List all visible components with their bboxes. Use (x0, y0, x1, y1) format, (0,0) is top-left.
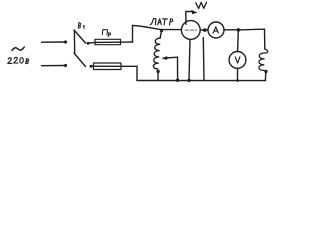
wire bottom rail (137, 80, 266, 82)
label V (235, 57, 240, 63)
wire node-A junction down to rail (202, 38, 205, 81)
wattmeter arrowhead (191, 10, 197, 15)
wire wattmeter bottom to rail (189, 39, 190, 80)
node between W and A (203, 28, 207, 32)
label Pr top fuse (102, 30, 110, 37)
wire through bottom fuse (91, 65, 137, 67)
node switch top contact (87, 42, 90, 45)
autotransformer LATR winding (153, 38, 160, 69)
voltmeter V circle (229, 52, 246, 69)
wire tap stub to winding (160, 31, 161, 38)
wire voltmeter branch bottom (237, 68, 239, 80)
label A (213, 27, 218, 33)
wire wattmeter to node (200, 29, 207, 31)
wire tap to top right corner (238, 28, 264, 31)
load inductor coil (259, 49, 268, 73)
switch B1 top blade (74, 30, 86, 43)
node wiper on rail (176, 79, 179, 82)
node voltmeter on rail (236, 79, 239, 82)
wattmeter dial dash (185, 29, 197, 31)
wire wiper to rail (177, 57, 179, 80)
node LATR top tap (160, 29, 163, 32)
LATR wiper arrowhead (161, 56, 167, 60)
fuse Pr top body (95, 39, 121, 44)
wire load bottom to rail (264, 71, 266, 80)
node V tap (237, 28, 241, 32)
wire top run to wattmeter (133, 26, 182, 30)
ammeter A circle (208, 22, 224, 38)
wire bottom feed (42, 65, 65, 67)
node LATR winding bottom (156, 70, 159, 73)
wire top feed (42, 41, 65, 43)
wire top riser after fuse (132, 26, 134, 43)
AC source tilde symbol (12, 47, 24, 51)
label LATR (150, 19, 173, 25)
wire bottom corner after fuse (136, 66, 138, 80)
wire voltmeter branch top (237, 30, 240, 51)
label W (196, 2, 207, 8)
wattmeter W circle (181, 21, 200, 40)
wire LATR bottom to rail (157, 71, 159, 80)
wire right edge down to load (264, 29, 266, 49)
switch B1 tie bar (73, 30, 75, 54)
label 220V (8, 57, 29, 63)
node wattmeter-rail junction (187, 79, 190, 82)
node load coil bottom (264, 70, 267, 73)
fuse bottom body (94, 63, 122, 70)
switch B1 bottom blade (74, 53, 86, 67)
LATR wiper arrow shaft (166, 56, 178, 59)
wire A to V tap (224, 29, 237, 31)
node top terminal (64, 40, 67, 43)
label B1 (78, 22, 84, 28)
wattmeter arrow bracket (186, 12, 193, 25)
wire through top fuse (88, 42, 133, 43)
node switch bottom contact (90, 65, 93, 68)
node bottom terminal (64, 64, 67, 67)
